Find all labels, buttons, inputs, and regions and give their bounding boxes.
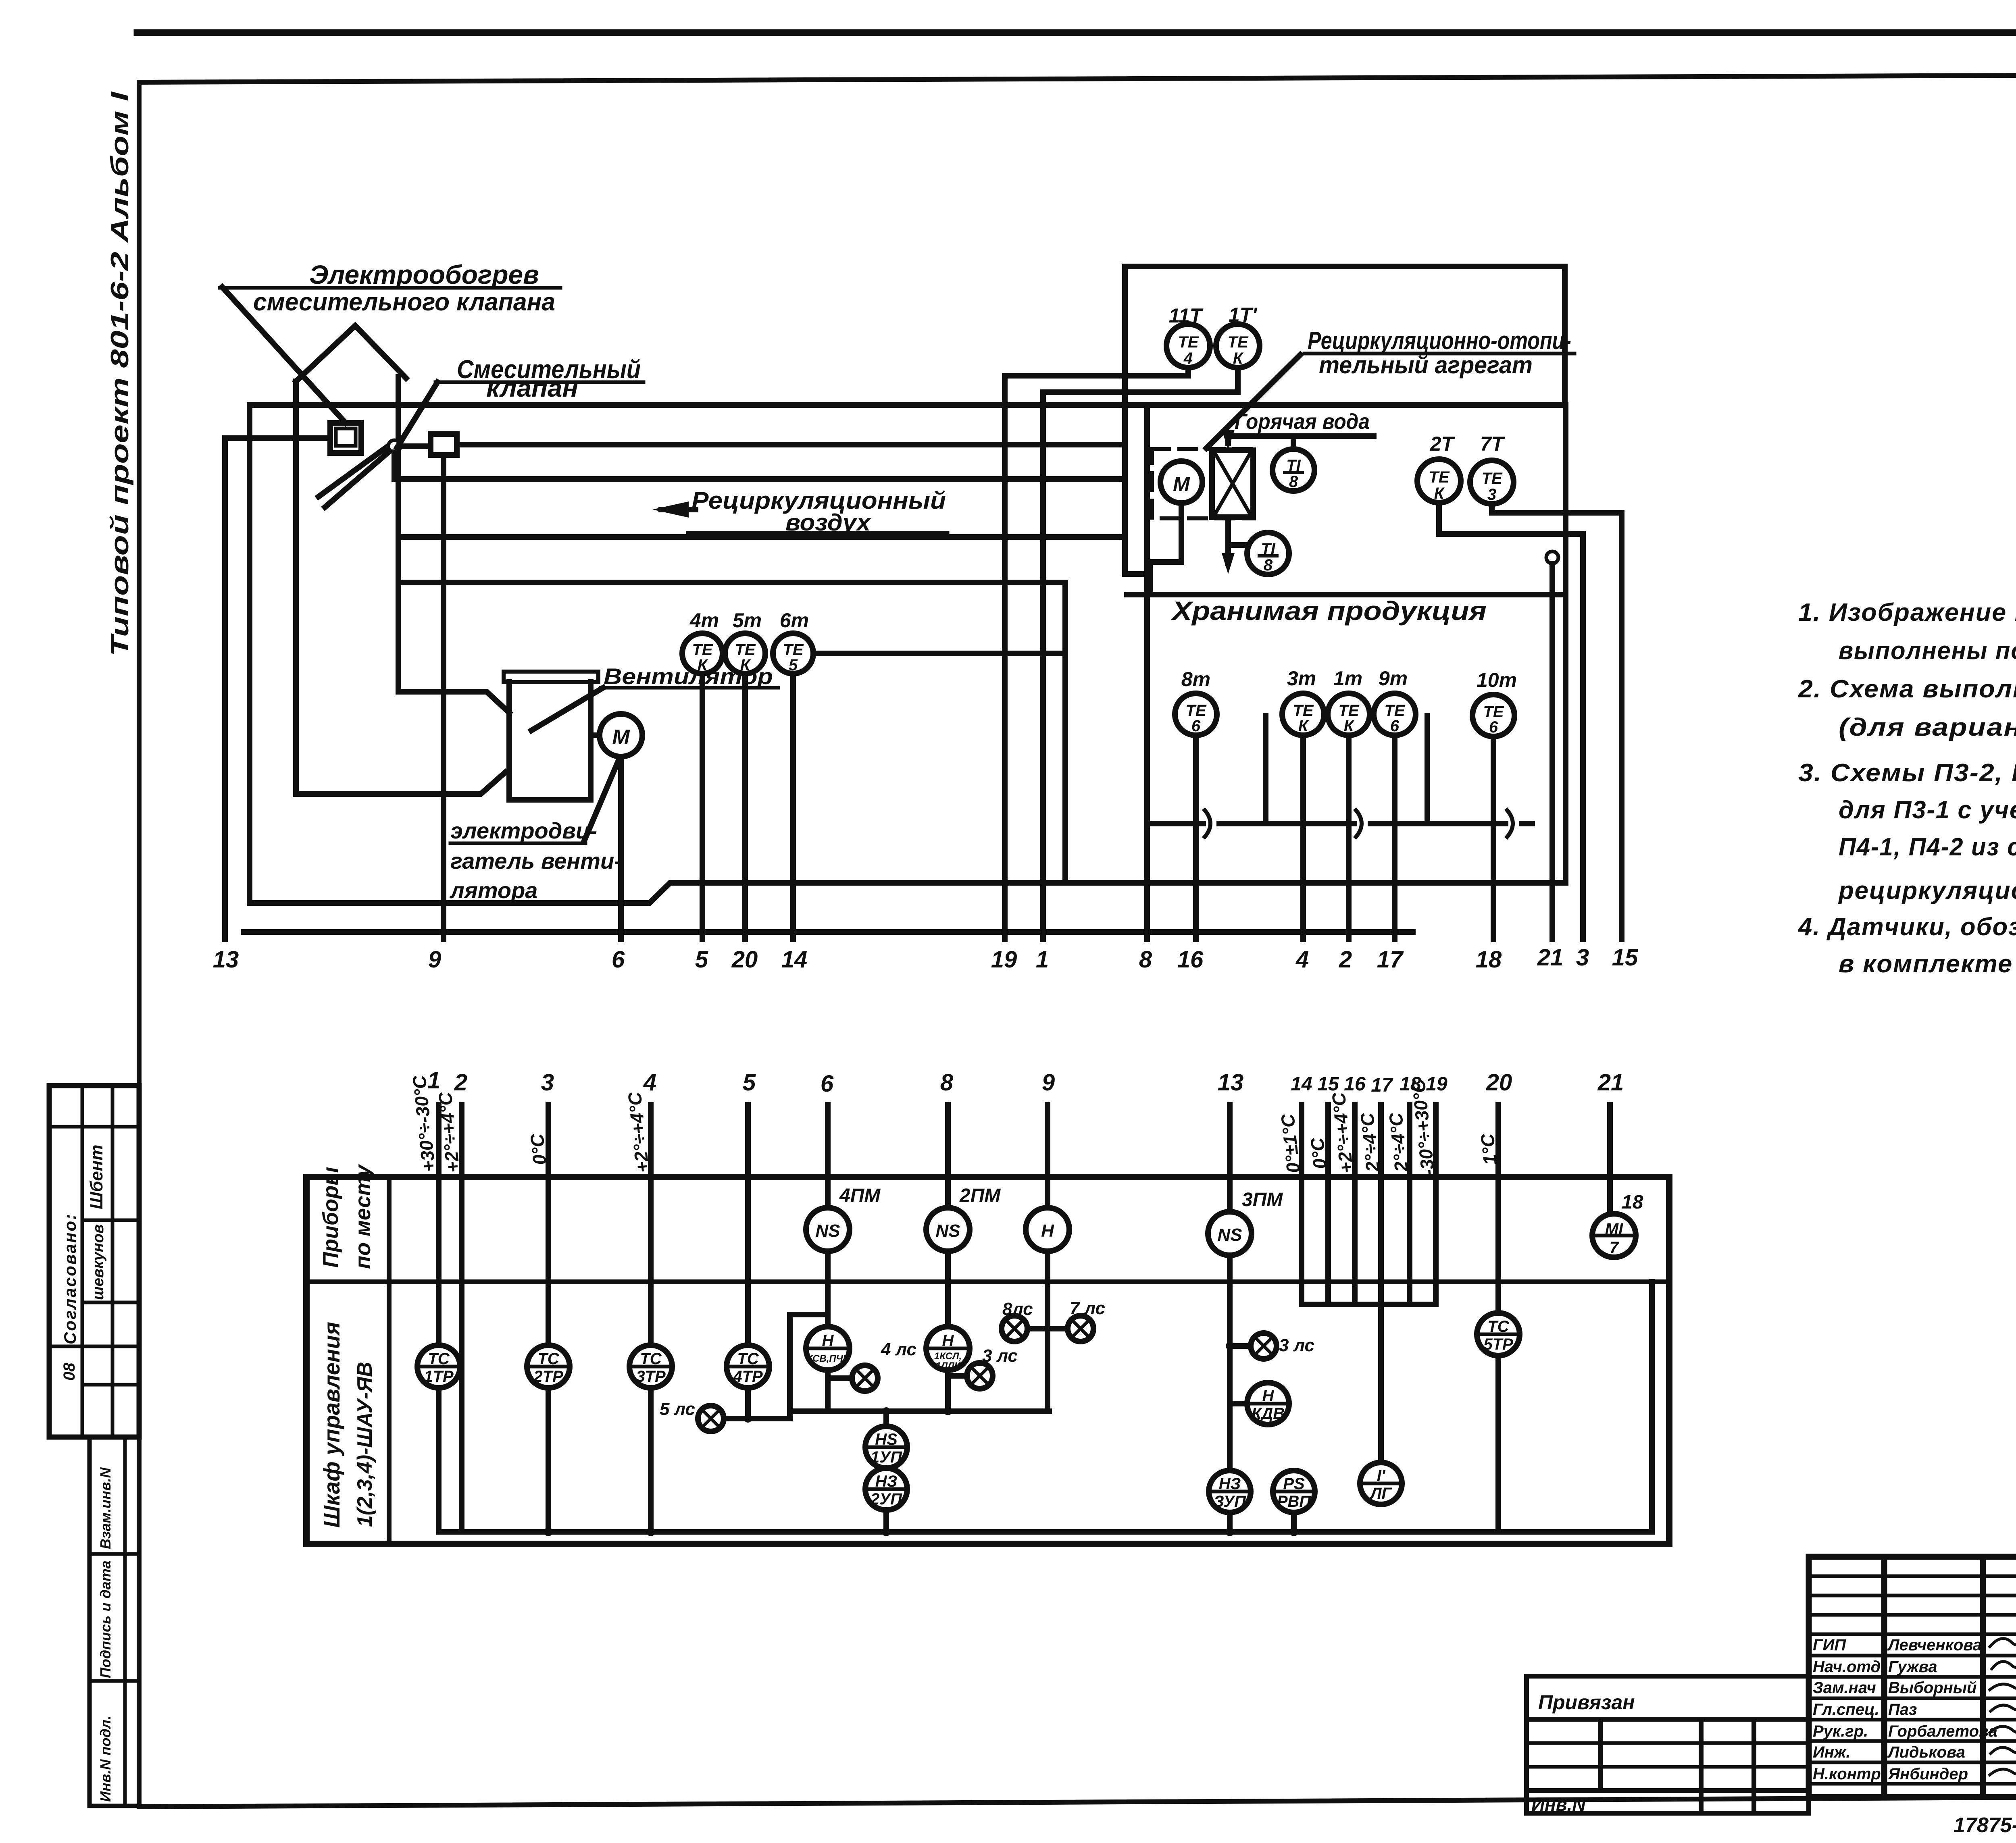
break mark 1	[1205, 810, 1210, 837]
svg-text:К: К	[1298, 717, 1309, 735]
title block left labels	[1813, 1636, 1997, 1783]
svg-text:ТС: ТС	[737, 1350, 759, 1368]
notes	[1797, 599, 2016, 978]
line 9 from actuator	[441, 455, 446, 939]
bottom diagram numbers	[427, 1067, 1624, 1097]
svg-text:7: 7	[1610, 1239, 1619, 1256]
room ceiling	[1127, 592, 1566, 597]
stem H2 to link	[945, 1370, 951, 1411]
svg-text:8: 8	[1289, 473, 1298, 491]
controller TC 1TP	[417, 1345, 460, 1388]
svg-text:КДВ: КДВ	[1252, 1405, 1285, 1423]
line 3	[546, 1105, 551, 1345]
svg-text:13: 13	[1218, 1069, 1244, 1096]
svg-text:NS: NS	[815, 1221, 840, 1241]
sensor TE 3t circle	[1282, 693, 1324, 735]
privyazan block	[1527, 1676, 1809, 1813]
lamp 4LS	[852, 1365, 878, 1391]
stem PS RVP to bus	[1291, 1512, 1297, 1532]
svg-text:6т: 6т	[780, 609, 809, 632]
motor M circle	[600, 714, 642, 757]
svg-text:1ЛЛК: 1ЛЛК	[935, 1360, 961, 1371]
unit M drop to room	[1150, 503, 1181, 595]
line 5	[700, 674, 705, 939]
svg-text:NS: NS	[1217, 1225, 1242, 1245]
stem line17 to I LG	[1378, 1304, 1384, 1462]
svg-text:16: 16	[1177, 946, 1204, 973]
svg-text:Инв.N подл.: Инв.N подл.	[97, 1716, 114, 1802]
svg-text:М: М	[612, 726, 630, 749]
mixing valve stem	[396, 377, 401, 692]
svg-text:Н: Н	[1041, 1221, 1054, 1241]
duct from valve to fan upper inlet	[398, 692, 509, 713]
break mark 2	[1356, 810, 1362, 837]
valve flap line 2	[325, 450, 391, 507]
lamp 7LS	[1068, 1316, 1093, 1342]
left side strip: Soglasovano box	[49, 1086, 139, 1437]
svg-text:8: 8	[1264, 556, 1273, 574]
underline Smesitelny	[435, 381, 644, 384]
hot water down arrow into unit	[1225, 436, 1231, 443]
room partition 2	[1425, 716, 1430, 824]
leader elektrodvigatel	[584, 759, 619, 842]
underline Ventilyator	[601, 686, 778, 690]
line 2	[459, 1105, 464, 1532]
svg-text:2: 2	[1339, 946, 1352, 973]
svg-text:5: 5	[695, 946, 708, 973]
outlet below exchanger	[1225, 517, 1231, 564]
svg-text:08: 08	[60, 1362, 78, 1381]
line 20	[1495, 1105, 1501, 1313]
recirculation duct upper line	[398, 534, 1125, 540]
svg-text:воздух: воздух	[785, 510, 872, 536]
svg-text:7 лс: 7 лс	[1070, 1298, 1105, 1318]
line 13	[1227, 1105, 1233, 1212]
wire TE7T to line 15	[1492, 504, 1622, 513]
wire TE6t to duct	[813, 651, 1065, 656]
svg-text:20: 20	[731, 946, 758, 973]
svg-text:ГИП: ГИП	[1813, 1636, 1846, 1654]
underline recirculation vozduh	[688, 531, 948, 535]
svg-text:3: 3	[1487, 486, 1496, 503]
svg-text:Н: Н	[822, 1332, 834, 1350]
svg-text:ТС: ТС	[640, 1350, 662, 1368]
svg-text:14: 14	[1291, 1073, 1312, 1095]
duct loop top line A	[250, 402, 1566, 408]
sensor TE 4t circle	[682, 633, 723, 674]
svg-text:3ТР: 3ТР	[636, 1368, 666, 1385]
svg-text:Гужва: Гужва	[1888, 1658, 1937, 1676]
svg-text:Инж.: Инж.	[1813, 1743, 1851, 1761]
relay PS RVP circle	[1273, 1471, 1315, 1512]
svg-text:10т: 10т	[1477, 669, 1517, 691]
svg-text:1(2,3,4)-ШАУ-ЯВ: 1(2,3,4)-ШАУ-ЯВ	[353, 1362, 377, 1527]
svg-text:5: 5	[789, 656, 798, 674]
rotated temperature labels	[408, 1074, 1501, 1177]
svg-text:П4-1, П4-2 из схемы исключаютс: П4-1, П4-2 из схемы исключаются датчики …	[1839, 833, 2016, 861]
sensor TE 1t circle	[1328, 693, 1370, 735]
svg-text:ТС: ТС	[428, 1350, 450, 1368]
bottom bus wire	[439, 1282, 1652, 1532]
svg-text:Приборы: Приборы	[319, 1167, 343, 1268]
svg-text:4. Датчики, обозначенные букв: 4. Датчики, обозначенные буквой „к" пост…	[1797, 913, 2016, 941]
sensor TE 2T circle	[1417, 459, 1461, 503]
panel circle texts	[424, 1220, 1623, 1510]
device H circle line9	[1026, 1208, 1069, 1251]
riser to room wall	[1125, 409, 1147, 574]
svg-text:шевкунов: шевкунов	[90, 1224, 107, 1300]
svg-text:Согласовано:: Согласовано:	[60, 1213, 79, 1344]
svg-text:5: 5	[743, 1069, 756, 1096]
svg-text:ЛГ: ЛГ	[1369, 1485, 1392, 1502]
stem TC3TP to bus	[648, 1388, 654, 1532]
junction dots bus	[544, 1527, 553, 1536]
svg-text:НS: НS	[875, 1431, 898, 1448]
svg-text:Подпись и дата: Подпись и дата	[97, 1560, 114, 1678]
svg-text:4: 4	[643, 1069, 656, 1096]
svg-text:17: 17	[1377, 946, 1404, 973]
stem NS to H	[825, 1251, 831, 1327]
svg-text:11Т: 11Т	[1169, 304, 1204, 327]
svg-text:19: 19	[991, 946, 1017, 973]
svg-text:тельный агрегат: тельный агрегат	[1319, 352, 1533, 379]
svg-text:3: 3	[1576, 944, 1589, 971]
underline recirc-otopit	[1304, 352, 1574, 356]
svg-text:Взам.инв.N: Взам.инв.N	[97, 1467, 114, 1549]
building floor line	[244, 929, 1413, 935]
controller TC 4TP	[727, 1345, 769, 1388]
arrowhead left	[652, 501, 689, 518]
svg-text:ТЕ: ТЕ	[1481, 470, 1502, 487]
svg-text:4ТР: 4ТР	[733, 1368, 763, 1385]
svg-text:18: 18	[1476, 946, 1502, 973]
junction dots on link	[882, 1407, 890, 1415]
recirc unit dashed box	[1152, 449, 1254, 518]
stem 1UP top	[883, 1411, 889, 1426]
svg-text:2УП: 2УП	[870, 1490, 902, 1508]
relay NZ ZUP circle	[1209, 1471, 1251, 1512]
tick to TI8 lower	[1228, 542, 1247, 548]
svg-text:8т: 8т	[1181, 668, 1210, 691]
horizontal link wire	[790, 1408, 1049, 1414]
svg-text:гатель венти-: гатель венти-	[450, 848, 622, 874]
line 6 from motor	[618, 757, 624, 939]
svg-text:Нач.отд.: Нач.отд.	[1813, 1658, 1885, 1676]
room left wall line 8	[1144, 405, 1150, 939]
svg-text:14: 14	[781, 946, 808, 973]
recirculation unit leader	[1206, 355, 1300, 448]
sensor TE 10t circle	[1472, 695, 1514, 736]
underline elektrodvigatel	[450, 842, 585, 845]
stub to 6LS	[948, 1373, 967, 1379]
svg-text:9: 9	[428, 946, 441, 973]
line 5	[745, 1105, 751, 1345]
sensor TE 8t circle	[1175, 693, 1217, 735]
svg-text:Выборный: Выборный	[1888, 1679, 1976, 1697]
svg-text:ТС: ТС	[537, 1350, 559, 1368]
svg-text:ТЕ: ТЕ	[1178, 333, 1199, 351]
title block outline	[1809, 1557, 2016, 1797]
svg-text:5т: 5т	[733, 609, 762, 632]
svg-text:ТІ: ТІ	[1286, 457, 1301, 474]
wire 5LS junction	[724, 1315, 828, 1419]
sensor TE 1T' circle	[1216, 324, 1260, 368]
svg-text:2. Схема выполнена для приточ: 2. Схема выполнена для приточной установ…	[1798, 675, 2016, 703]
svg-text:8: 8	[1139, 946, 1152, 973]
svg-text:ТЕ: ТЕ	[1227, 333, 1248, 351]
svg-text:МІ: МІ	[1605, 1220, 1623, 1238]
svg-text:5ТР: 5ТР	[1483, 1335, 1513, 1353]
svg-text:1УП: 1УП	[871, 1448, 902, 1466]
svg-text:смесительного клапана: смесительного клапана	[253, 288, 555, 316]
wire node to actuator	[400, 443, 431, 449]
svg-text:рециркуляционно-отопительный а: рециркуляционно-отопительный агрегат.	[1838, 877, 2016, 905]
duct from X-vertex down to fan lower inlet	[296, 381, 505, 794]
stub to H KDV	[1230, 1401, 1247, 1406]
lamp 8LS	[1002, 1316, 1027, 1342]
leader Smesitelny klapan	[397, 382, 437, 447]
wire fan to motor	[591, 732, 600, 738]
svg-text:в комплекте со щитами ШАУ-ЯВ.: в комплекте со щитами ШАУ-ЯВ.	[1839, 950, 2016, 978]
svg-text:клапан: клапан	[486, 374, 578, 402]
svg-text:ТІ: ТІ	[1261, 540, 1275, 558]
svg-text:Н.контр.: Н.контр.	[1813, 1765, 1885, 1783]
actuator control wire	[457, 442, 1125, 447]
line 15	[1619, 513, 1624, 939]
lamp 3LS	[1251, 1333, 1277, 1359]
svg-text:лятора: лятора	[449, 878, 537, 903]
svg-text:Левченкова: Левченкова	[1887, 1636, 1982, 1654]
recirculation air arrow	[661, 507, 696, 512]
svg-text:0°С: 0°С	[526, 1132, 550, 1166]
recirculation duct lower line	[398, 580, 1065, 585]
TE circle texts	[692, 333, 1504, 736]
line 18	[1491, 736, 1496, 939]
line 3	[1580, 534, 1586, 939]
line 9	[1045, 1105, 1050, 1208]
recorder MI 7 circle	[1592, 1214, 1636, 1257]
device H 1KSL circle	[926, 1327, 970, 1370]
panel table outline	[306, 1177, 1669, 1544]
svg-text:4: 4	[1295, 946, 1309, 973]
svg-text:1т: 1т	[1333, 667, 1362, 690]
svg-text:21: 21	[1537, 944, 1564, 971]
wire heater to line 13	[225, 435, 330, 441]
svg-text:1. Изображение приборов и ср: 1. Изображение приборов и средств автома…	[1798, 599, 2016, 626]
line 21	[1549, 564, 1555, 939]
svg-text:ТС: ТС	[1487, 1318, 1509, 1335]
controller TC 2TP	[527, 1345, 570, 1388]
svg-text:18: 18	[1622, 1192, 1643, 1213]
svg-text:ТЕ: ТЕ	[1429, 468, 1450, 486]
row divider	[306, 1279, 1669, 1284]
controller TC 5TP	[1477, 1313, 1520, 1356]
device H KSV circle	[806, 1327, 850, 1370]
lamp 6LS	[967, 1363, 993, 1389]
break mark 3	[1507, 810, 1513, 837]
svg-text:8: 8	[940, 1069, 954, 1096]
svg-text:Шбент: Шбент	[87, 1145, 106, 1210]
top thin rows	[1809, 1575, 2016, 1578]
hot water line	[1228, 433, 1374, 439]
stem 2UP to bus	[883, 1510, 889, 1532]
left columns	[1881, 1557, 1887, 1797]
stem TC4TP to lamp wire	[745, 1388, 751, 1419]
cluster bracket	[1302, 1302, 1436, 1307]
svg-text:3 лс: 3 лс	[982, 1346, 1018, 1366]
line 17	[1392, 735, 1397, 939]
svg-text:21: 21	[1597, 1069, 1624, 1096]
stub to 4LS	[828, 1375, 852, 1381]
svg-text:6: 6	[1489, 718, 1498, 736]
svg-text:2ТР: 2ТР	[533, 1368, 563, 1385]
TI 8 upper circle	[1272, 449, 1314, 491]
svg-text:0°С: 0°С	[1306, 1136, 1331, 1170]
heat exchanger X cross	[1214, 452, 1251, 515]
svg-text:2Т: 2Т	[1430, 433, 1456, 455]
svg-text:Паз: Паз	[1888, 1701, 1917, 1718]
signatures in title block	[1990, 1637, 2016, 1775]
svg-text:НЗ: НЗ	[1219, 1475, 1241, 1493]
node open dot	[388, 440, 400, 452]
svg-text:15: 15	[1317, 1073, 1339, 1095]
svg-text:3. Схемы П3-2, П4-1, П4-2 ана: 3. Схемы П3-2, П4-1, П4-2 аналогичны при…	[1798, 759, 2016, 787]
wire TE2T to line 3	[1439, 503, 1583, 534]
svg-text:І': І'	[1377, 1467, 1386, 1485]
name rows	[1809, 1633, 2016, 1636]
svg-text:1КСЛ,: 1КСЛ,	[934, 1351, 962, 1362]
control riser	[1125, 266, 1565, 479]
svg-text:1: 1	[1036, 946, 1049, 973]
svg-text:К: К	[698, 656, 708, 674]
svg-text:для П3-1 с учетом следующего и: для П3-1 с учетом следующего изменения: …	[1839, 796, 2016, 824]
duct return riser right	[1563, 405, 1568, 883]
electric heater box of mixing valve	[330, 423, 361, 453]
svg-text:К: К	[1233, 349, 1244, 367]
wire lamps 8LS 7LS	[1027, 1326, 1068, 1331]
actuator square	[431, 434, 457, 455]
duct left wall	[247, 405, 252, 903]
svg-text:РВП: РВП	[1277, 1493, 1312, 1510]
svg-text:6: 6	[1390, 717, 1400, 735]
line 4	[1300, 735, 1306, 939]
line 20	[742, 674, 748, 939]
TI 8 lower circle	[1247, 533, 1289, 574]
svg-text:16: 16	[1344, 1073, 1366, 1095]
heat exchanger box	[1212, 450, 1253, 517]
stem TC5TP to bus	[1495, 1356, 1501, 1532]
svg-text:Н: Н	[942, 1332, 954, 1350]
svg-text:Типовой проект 801-6-2 Альбом: Типовой проект 801-6-2 Альбом I	[106, 91, 134, 656]
svg-text:3т: 3т	[1287, 667, 1316, 690]
line 1 wire to TE 1T'	[1043, 368, 1238, 939]
valve flap line 1	[319, 445, 389, 497]
svg-text:Шкаф управления: Шкаф управления	[319, 1322, 344, 1528]
svg-text:15: 15	[1612, 944, 1638, 971]
svg-text:РS: РS	[1283, 1475, 1305, 1493]
outer top border line	[137, 29, 2016, 36]
line 1	[436, 1105, 442, 1345]
line 21	[1607, 1105, 1613, 1214]
svg-text:13: 13	[213, 946, 239, 973]
sensor TE 5t circle	[725, 633, 765, 674]
line 21 sensor open dot	[1546, 551, 1558, 564]
svg-text:КСВ,ПЧК: КСВ,ПЧК	[807, 1353, 850, 1364]
stem NZ ZUP to bus	[1227, 1512, 1233, 1532]
svg-text:Горячая вода: Горячая вода	[1235, 410, 1370, 434]
svg-text:Лидькова: Лидькова	[1887, 1743, 1965, 1761]
svg-text:5 лс: 5 лс	[660, 1399, 695, 1419]
svg-text:9: 9	[1042, 1069, 1055, 1096]
line 16	[1193, 735, 1199, 939]
svg-text:3ПМ: 3ПМ	[1242, 1189, 1283, 1211]
svg-text:17875-01 77 Копировала Само: 17875-01 77 Копировала Самофь	[1954, 1814, 2016, 1837]
svg-text:электродви-: электродви-	[450, 818, 597, 843]
sensor TE 9t circle	[1374, 693, 1416, 735]
stem TI8 upper	[1291, 439, 1296, 449]
relay NZ 2UP circle	[865, 1468, 907, 1510]
svg-text:4 лс: 4 лс	[881, 1340, 916, 1359]
line 6	[825, 1105, 831, 1208]
svg-text:ЗУП: ЗУП	[1214, 1493, 1246, 1510]
svg-text:Хранимая продукция: Хранимая продукция	[1170, 596, 1487, 626]
leader underline Elektroobgrev	[220, 286, 560, 290]
controller TC 3TP	[629, 1345, 672, 1388]
room partition 1	[1263, 716, 1268, 824]
svg-text:Рециркуляционно-отопи-: Рециркуляционно-отопи-	[1308, 327, 1571, 355]
svg-text:НЗ: НЗ	[875, 1473, 898, 1490]
svg-text:Янбиндер: Янбиндер	[1888, 1765, 1968, 1783]
sensor TE 11T circle	[1166, 324, 1210, 368]
stem NS2 to H	[945, 1251, 951, 1327]
svg-text:Рук.гр.: Рук.гр.	[1813, 1722, 1868, 1740]
line 19 wire to TE 11T	[1005, 368, 1188, 939]
recirc unit motor M	[1160, 461, 1202, 503]
line 2	[1346, 735, 1352, 939]
svg-text:9т: 9т	[1379, 667, 1408, 690]
node stem to control wire	[394, 452, 1125, 479]
line 8	[945, 1105, 951, 1208]
svg-text:1ТР: 1ТР	[424, 1368, 454, 1385]
svg-text:Зам.нач: Зам.нач	[1813, 1679, 1876, 1697]
stem TC2TP to bus	[546, 1388, 551, 1532]
svg-text:1°С: 1°С	[1477, 1132, 1501, 1166]
wire down from corner	[787, 1315, 793, 1411]
storage room product floor with breaks	[1147, 821, 1532, 826]
stem NS3 down	[1227, 1255, 1233, 1471]
svg-text:Н: Н	[1262, 1387, 1275, 1405]
fan leader	[531, 688, 603, 730]
line 13	[222, 438, 228, 939]
svg-text:6: 6	[1191, 717, 1201, 735]
svg-text:Гл.спец.: Гл.спец.	[1813, 1701, 1879, 1718]
stem TC1TP to bus	[436, 1388, 442, 1532]
svg-text:4т: 4т	[689, 609, 719, 632]
svg-text:6: 6	[821, 1071, 834, 1097]
switch NS 3PM	[1208, 1212, 1252, 1255]
svg-text:3 лс: 3 лс	[1279, 1335, 1314, 1355]
stem H to link	[825, 1370, 831, 1411]
indicator I LG circle	[1360, 1462, 1402, 1504]
svg-text:3: 3	[541, 1069, 554, 1096]
left side strip: lower cells	[90, 1437, 139, 1806]
label column divider	[387, 1177, 392, 1544]
leader line Elektroobgrev	[222, 287, 346, 423]
svg-text:выполнены по ОСТ 36. 27-77.: выполнены по ОСТ 36. 27-77.	[1839, 637, 2016, 665]
stub to 3LS	[1230, 1343, 1251, 1349]
svg-text:(для варианта с tн=-20°С, - 30: (для варианта с tн=-20°С, - 30°С, - 40°С…	[1839, 713, 2016, 741]
fan body	[509, 682, 591, 800]
